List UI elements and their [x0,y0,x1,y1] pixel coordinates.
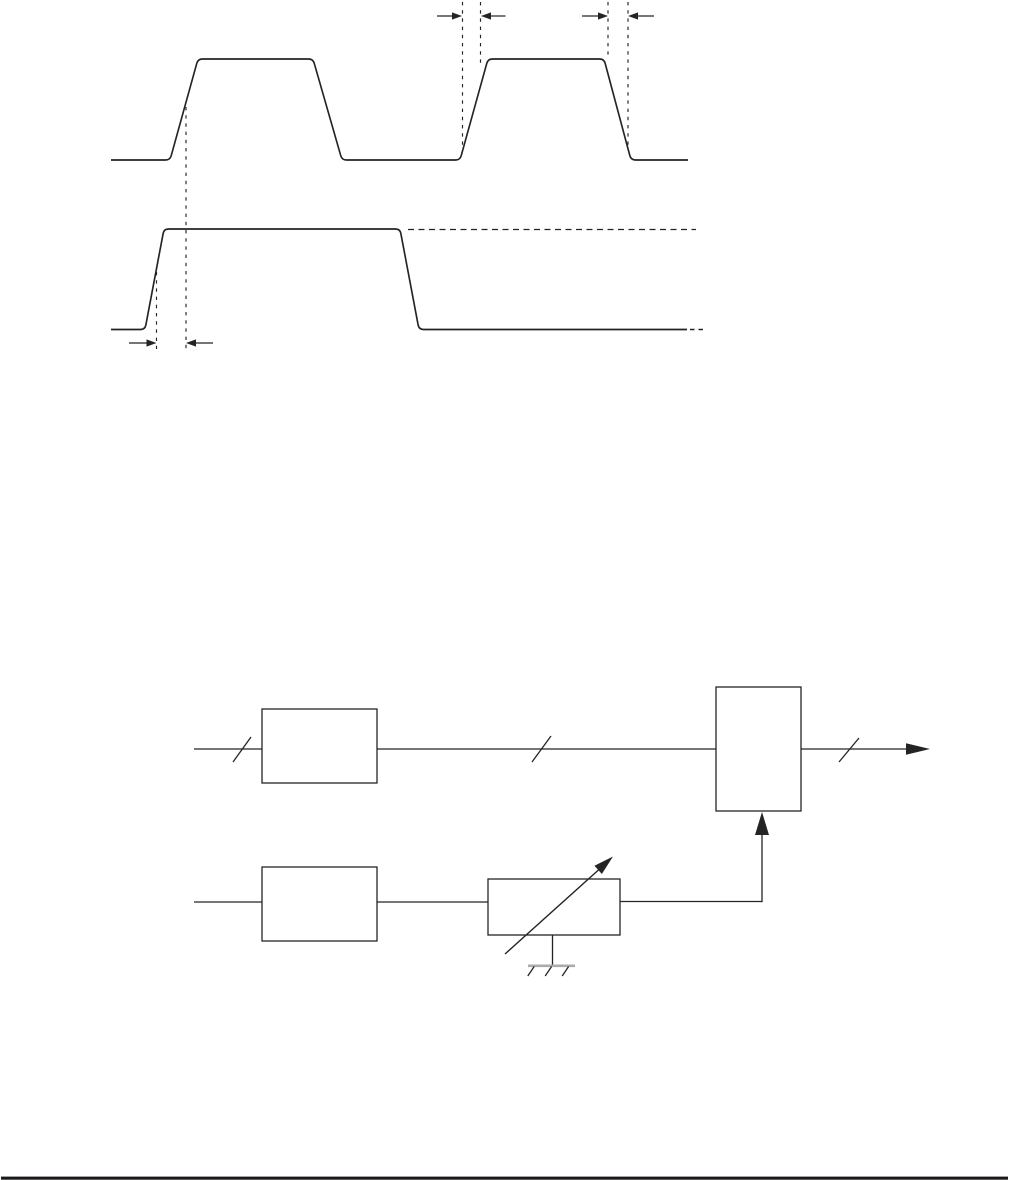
dashed reference line D1 (rise start of pulse 2) [462,2,464,147]
arrow A1 (rise time, pointing right) [437,12,462,19]
footer rule [1,1177,1008,1180]
wire W3 (top row input wire) [194,748,262,750]
arrow A5 (delay, pointing right) [129,339,157,346]
ground wire stem [552,935,554,966]
ground hatch 3 [562,967,568,977]
dashed high-level reference line of W2 [408,229,696,231]
dashed reference line D4 (fall end of pulse 2) [627,2,629,145]
dashed reference line D5 (W2 rise, short) [156,272,158,349]
bus slash S2 [532,736,551,762]
arrow A6 (delay, pointing left) [186,339,213,346]
waveform W2 (bottom timing trace, single pulse) [111,229,687,330]
block B1 (top-left box) [262,709,377,783]
ground bar (grey) [528,965,575,968]
dashed reference line D2 (rise end of pulse 2) [480,2,482,67]
ground hatch 2 [545,967,551,977]
dashed reference line D3 (fall start of pulse 2) [607,2,609,56]
wire W7 (B2 to B4) [377,901,488,903]
arrow A4 (fall time, pointing left) [628,12,654,19]
arrow A2 (rise time, pointing left) [481,12,506,19]
arrow A3 (fall time, pointing right) [582,12,608,19]
bus slash S3 [839,738,859,762]
wire W4 (B1 to B3) [377,748,716,750]
block B2 (bottom-left box) [262,867,377,941]
wire W6 (bottom row input wire) [194,901,262,903]
block B4 (variable attenuator box) [488,879,620,935]
wire W5 (B3 output with arrowhead) [801,743,930,755]
wire W8 (B4 to riser corner) [620,901,762,903]
bus slash S1 [233,737,251,762]
ground hatch 1 [528,967,534,977]
variable adjustment arrow through B4 [505,857,613,955]
waveform W1 (top timing trace, two pulses) [111,59,688,160]
dashed reference line D6 (W1 rise midpoint, long) [185,107,187,349]
block B3 (tall output box) [716,687,801,811]
wire W9 (vertical riser with up arrowhead into B3) [755,812,769,902]
dashed continuation of W2 low level [690,329,704,331]
